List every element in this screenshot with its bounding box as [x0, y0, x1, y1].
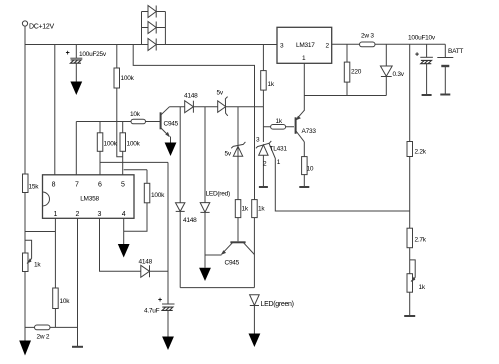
svg-text:1k: 1k: [258, 206, 265, 213]
wire +12V bus horizontal: [25, 44, 277, 46]
transistor Q1 C945 (NPN): [161, 107, 179, 137]
diode stack right rail: [164, 12, 166, 45]
svg-text:C945: C945: [164, 121, 179, 128]
svg-text:2: 2: [76, 211, 80, 218]
resistor 2w 3: [360, 33, 376, 47]
resistor 1k (zener to base): [235, 200, 249, 242]
diode 4148 (horizontal): [184, 93, 198, 113]
svg-text:220: 220: [351, 69, 362, 76]
resistor 10k (pin1 feedback): [53, 288, 71, 327]
svg-text:2w 3: 2w 3: [361, 33, 374, 40]
potentiometer 1k (right): [407, 260, 426, 316]
potentiometer 1k (left): [23, 240, 42, 271]
svg-text:4148: 4148: [183, 217, 197, 224]
svg-text:1k: 1k: [242, 206, 249, 213]
svg-text:C945: C945: [225, 260, 240, 267]
ground bar right column: [404, 315, 415, 317]
resistor 15k: [23, 174, 40, 193]
svg-text:100uF10v: 100uF10v: [408, 35, 436, 42]
svg-text:6: 6: [98, 182, 102, 189]
svg-text:10: 10: [307, 166, 314, 173]
LED LED(red): [200, 191, 230, 213]
resistor 100k (top, from bus): [114, 45, 135, 89]
svg-text:100k: 100k: [151, 192, 165, 199]
node DC+12V input terminal: [22, 21, 54, 31]
diode D1 (top): [142, 6, 166, 18]
resistor 10k (to C945 base): [130, 111, 146, 124]
wire Q2 emitter to LED red column: [205, 254, 222, 256]
svg-text:3: 3: [98, 211, 102, 218]
resistor 2.7k: [407, 228, 427, 274]
zener diode 5v (vertical): [225, 142, 246, 158]
wire A733 collector column: [303, 142, 305, 157]
svg-text:BATT: BATT: [448, 48, 463, 55]
wire pin5 row to 100k: [124, 169, 147, 171]
svg-text:4148: 4148: [139, 259, 153, 266]
wire collector row y106.7: [170, 106, 264, 108]
svg-text:+: +: [158, 297, 162, 304]
svg-text:5: 5: [121, 182, 125, 189]
resistor 220: [344, 44, 361, 95]
svg-text:2w 2: 2w 2: [37, 334, 50, 341]
svg-text:1k: 1k: [268, 81, 275, 88]
svg-text:10k: 10k: [60, 298, 71, 305]
wire left rail from bus down to 15k: [24, 45, 26, 175]
resistor 2w 2: [35, 325, 51, 341]
ground bar under BATT: [440, 94, 450, 96]
diode zener 5v (horizontal): [217, 90, 228, 116]
svg-text:4: 4: [122, 211, 126, 218]
ground bar pin2: [72, 346, 83, 348]
wire divider column x168 down: [167, 162, 169, 304]
ground arrow under 4.7uF: [162, 337, 174, 351]
wire pin4 column to ground arrow: [123, 218, 125, 244]
resistor 100k (pin5 to pin4): [124, 170, 165, 232]
svg-text:A733: A733: [302, 128, 317, 135]
wire 4148 vertical diode column: [179, 107, 181, 288]
ground arrow under pin4: [118, 244, 130, 258]
wire ADJ row y95.5: [304, 95, 386, 97]
svg-text:LM317: LM317: [296, 42, 315, 49]
transistor Q3 A733 (PNP): [296, 110, 317, 142]
wire A733 base row: [263, 126, 294, 128]
transistor Q2 C945 (NPN, rotated): [221, 242, 255, 266]
svg-text:TL431: TL431: [270, 146, 288, 153]
wire pin2 column down to ground: [77, 218, 79, 346]
ground bar TL431 anode: [259, 186, 268, 188]
LED LED(green): [250, 295, 294, 334]
wire pin3 column and row to x168: [100, 218, 169, 271]
wire pot bottom to 2w2 node: [24, 272, 26, 341]
resistor 10 (A733 collector): [302, 157, 314, 187]
wire 2w2 row: [25, 326, 78, 328]
wire 100k-top bottom down to jog: [117, 88, 123, 157]
svg-text:8: 8: [52, 182, 56, 189]
diode stack left rail: [141, 12, 143, 45]
wire right column x409.7 from OUT row down: [409, 44, 411, 141]
svg-text:5v: 5v: [225, 151, 232, 158]
ground arrow under LED green: [249, 334, 261, 348]
svg-text:1: 1: [53, 211, 57, 218]
wire bottom rail y287.6: [180, 287, 254, 289]
wire zener column x238: [237, 107, 239, 147]
resistor 2.2k: [407, 142, 427, 229]
svg-text:100k: 100k: [127, 141, 141, 148]
svg-text:1k: 1k: [34, 262, 41, 269]
wire pin8 column from bus to LM358: [54, 45, 56, 175]
wire from input terminal down to +12V bus: [24, 26, 26, 44]
ground bar under 100uF10v: [422, 94, 432, 96]
svg-text:15k: 15k: [29, 184, 40, 191]
wire pin1 column down: [54, 218, 56, 288]
svg-text:1k: 1k: [276, 118, 283, 125]
svg-text:+: +: [415, 52, 419, 59]
svg-text:0.3v: 0.3v: [393, 71, 405, 78]
resistor 100k (left of pair): [97, 122, 117, 175]
svg-text:LED(green): LED(green): [261, 301, 294, 308]
wire pin7 column: [75, 122, 77, 175]
wire LM317 OUT row: [332, 43, 446, 45]
resistor 100k (right of pair): [120, 122, 141, 175]
LM317 U1: [277, 27, 332, 63]
svg-text:+: +: [66, 50, 70, 57]
svg-text:LM358: LM358: [80, 196, 99, 203]
svg-text:100k: 100k: [121, 75, 135, 82]
diode D3 (bottom, on bus): [148, 39, 156, 51]
diode 4148 (pin3 row): [139, 259, 153, 278]
svg-text:5v: 5v: [217, 90, 224, 97]
wire branch from left rail to LM358 pin1 column: [25, 231, 55, 233]
ground arrow under LED red: [199, 268, 211, 281]
svg-text:LED(red): LED(red): [206, 191, 230, 198]
ground arrow under Q1 emitter: [165, 137, 177, 157]
TL431 U2: [256, 137, 410, 212]
capacitor 4.7uF: [144, 297, 175, 337]
wire LM317 pin1 column: [303, 63, 305, 110]
svg-text:7: 7: [75, 182, 79, 189]
ground bar under 10: [299, 186, 309, 188]
svg-text:2.2k: 2.2k: [415, 149, 427, 156]
wire op-amp output row y121.5: [76, 121, 161, 123]
wire LED red column: [204, 107, 206, 268]
resistor 1k (TL431 top, from bus): [261, 45, 275, 143]
capacitor 100uF10v: [408, 35, 436, 96]
LM358 box: [43, 175, 135, 219]
battery BATT: [437, 44, 463, 94]
wire from bus down and right at y65 to +12V column x254.5: [133, 45, 254, 200]
diode 4148 (vertical): [176, 203, 198, 224]
diode D2 (middle): [142, 22, 166, 34]
ground arrow bottom-left: [19, 341, 31, 356]
svg-text:100k: 100k: [104, 141, 118, 148]
diode 0.3v: [380, 44, 404, 95]
svg-text:100uF25v: 100uF25v: [79, 51, 107, 58]
resistor 1k (A733 base): [271, 118, 286, 129]
svg-text:4.7uF: 4.7uF: [144, 308, 160, 315]
ground arrow under 100uF25v: [70, 82, 82, 96]
capacitor C 100uF25v: [66, 45, 107, 82]
svg-text:1k: 1k: [419, 284, 426, 291]
wire 15k bottom down to node at y231.5: [24, 193, 26, 254]
wire pin6 row to divider column x168: [100, 161, 168, 163]
svg-text:10k: 10k: [130, 111, 141, 118]
svg-text:DC+12V: DC+12V: [29, 24, 54, 31]
resistor 1k (collector pull-up): [252, 200, 266, 288]
svg-text:2.7k: 2.7k: [415, 237, 427, 244]
svg-text:4148: 4148: [184, 93, 198, 100]
